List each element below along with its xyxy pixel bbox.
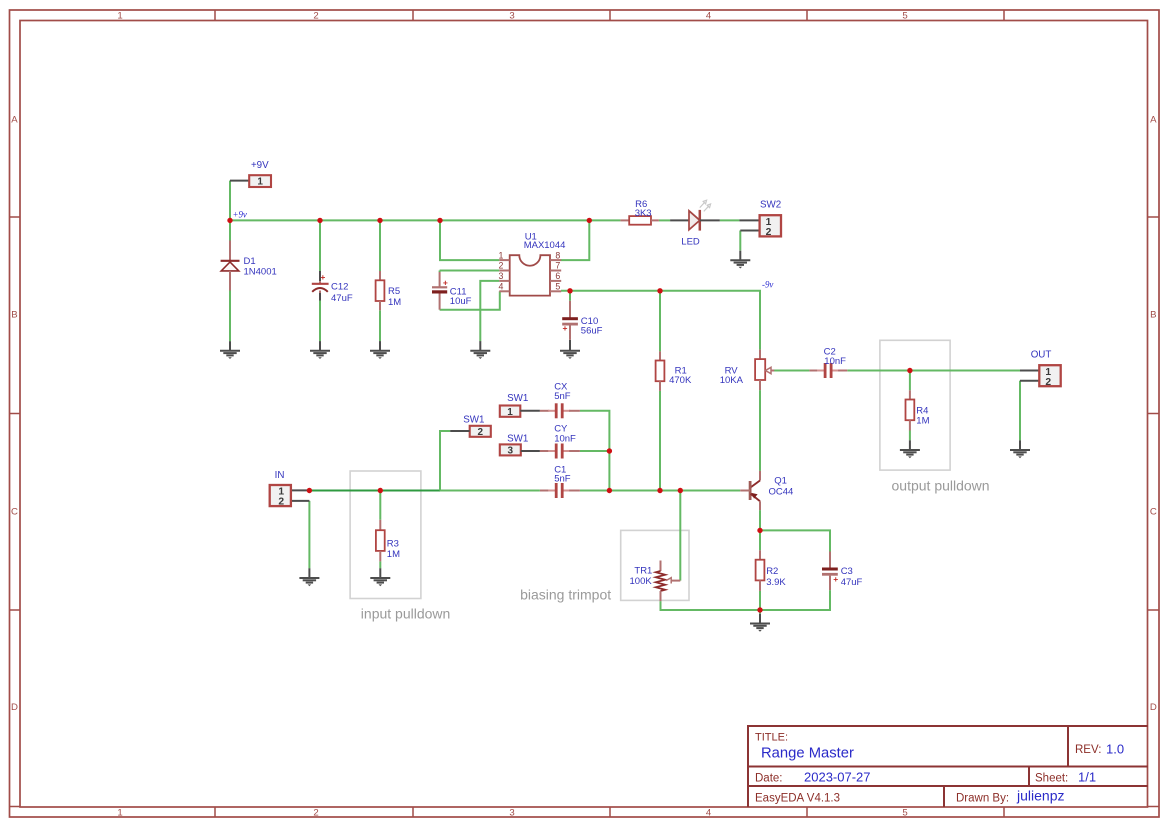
LED: [670, 200, 720, 247]
wire R2 top: [759, 530, 761, 550]
ground SW2: [730, 251, 750, 269]
svg-text:2: 2: [498, 261, 503, 271]
connector IN: [270, 470, 310, 507]
svg-text:3: 3: [509, 808, 514, 819]
wire to C3 top: [760, 530, 830, 551]
wire bottom rail TR1 to ground junction: [661, 601, 761, 610]
node junction output: [907, 368, 912, 373]
capacitor C3 47uF: [822, 552, 863, 591]
connector SW2: [739, 199, 781, 238]
svg-text:2: 2: [766, 227, 772, 238]
svg-text:REV:: REV:: [1075, 744, 1101, 756]
svg-text:56uF: 56uF: [581, 326, 603, 337]
capacitor C1 5nF: [540, 464, 580, 498]
node junction emitter: [757, 528, 762, 533]
svg-text:3: 3: [508, 446, 514, 457]
svg-text:47uF: 47uF: [331, 293, 353, 304]
wire U1 pin3 to ground: [480, 281, 499, 341]
wire -9v rail: [561, 291, 760, 350]
ground R3: [370, 568, 390, 586]
svg-text:3: 3: [498, 271, 503, 281]
svg-text:5nF: 5nF: [554, 391, 571, 402]
wire C12 bottom: [319, 301, 321, 342]
net flag SW1 pin 3: [500, 434, 540, 457]
svg-text:Sheet:: Sheet:: [1035, 773, 1068, 785]
svg-text:1N4001: 1N4001: [244, 266, 277, 277]
svg-text:4: 4: [706, 10, 712, 21]
svg-text:6: 6: [555, 271, 560, 281]
svg-text:A: A: [1150, 115, 1157, 126]
wire C11 top pin riser: [439, 271, 441, 273]
power flag +9V: [230, 160, 271, 188]
wire RV wiper to C2: [774, 370, 809, 372]
svg-text:D: D: [1150, 702, 1157, 713]
svg-text:IN: IN: [275, 470, 285, 481]
wire R4 top: [909, 371, 911, 391]
svg-text:MAX1044: MAX1044: [524, 240, 566, 251]
resistor R6 3K3: [620, 199, 659, 225]
net flag SW1 pin 1: [500, 393, 540, 418]
wire R1 top: [659, 291, 661, 352]
wire D1 top: [229, 220, 231, 240]
svg-text:1: 1: [507, 407, 513, 418]
svg-text:4: 4: [498, 282, 503, 292]
wire TR1 wiper branch: [679, 491, 681, 581]
wire C2 to OUT: [847, 370, 1020, 372]
svg-text:+: +: [320, 272, 325, 282]
svg-text:1M: 1M: [388, 297, 401, 308]
svg-text:1: 1: [117, 808, 122, 819]
svg-text:R5: R5: [388, 286, 400, 297]
svg-text:+: +: [833, 574, 838, 584]
svg-text:2: 2: [477, 427, 483, 438]
capacitor CY 10nF: [540, 424, 580, 459]
wire R5 top: [379, 220, 381, 271]
svg-text:A: A: [11, 115, 18, 126]
svg-text:R2: R2: [766, 566, 778, 577]
wire C12 top: [319, 220, 321, 271]
wire CY right to bus: [580, 450, 610, 452]
svg-text:Date:: Date:: [755, 773, 783, 785]
svg-text:5nF: 5nF: [554, 474, 571, 485]
svg-text:3K3: 3K3: [635, 208, 652, 219]
svg-text:4: 4: [706, 808, 712, 819]
svg-text:SW1: SW1: [463, 414, 484, 425]
svg-text:OUT: OUT: [1031, 350, 1052, 361]
ground D1: [220, 341, 240, 359]
svg-text:3.9K: 3.9K: [766, 577, 786, 588]
wire ground stem junction: [759, 610, 761, 614]
resistor R3 1M: [376, 520, 400, 562]
capacitor C12 47uF: [312, 271, 353, 304]
ground C10: [560, 340, 580, 359]
svg-text:1.0: 1.0: [1106, 742, 1124, 757]
wire R3 bottom: [379, 561, 381, 568]
svg-text:10nF: 10nF: [554, 433, 576, 444]
svg-text:1/1: 1/1: [1078, 770, 1096, 785]
svg-text:Q1: Q1: [774, 475, 787, 486]
svg-text:B: B: [1150, 310, 1156, 321]
wire U1 pin4 to C11 bottom: [440, 291, 500, 309]
svg-text:+: +: [563, 323, 568, 333]
ground emitter rail: [750, 614, 770, 632]
node junction bottom rail: [757, 607, 762, 612]
wire R4 bottom: [909, 431, 911, 441]
svg-text:1M: 1M: [387, 549, 400, 560]
svg-text:5: 5: [902, 10, 907, 21]
svg-text:47uF: 47uF: [841, 577, 863, 588]
svg-text:LED: LED: [681, 237, 700, 248]
capacitor CX 5nF: [540, 381, 580, 418]
svg-text:5: 5: [555, 282, 560, 292]
svg-text:Drawn By:: Drawn By:: [956, 793, 1009, 805]
capacitor C2 10nF: [809, 346, 847, 378]
svg-text:+9V: +9V: [251, 160, 269, 171]
svg-text:C3: C3: [841, 566, 853, 577]
ground U1 pin3: [470, 341, 490, 359]
potentiometer RV 10KA: [720, 350, 775, 391]
wire U1 pin1 to +9v: [440, 220, 499, 260]
wire C10 top: [569, 291, 571, 301]
wire R5 bottom: [379, 310, 381, 341]
svg-text:1M: 1M: [916, 416, 929, 427]
svg-text:10KA: 10KA: [720, 375, 744, 386]
svg-text:C12: C12: [331, 282, 348, 293]
svg-text:7: 7: [555, 261, 560, 271]
svg-text:EasyEDA V4.1.3: EasyEDA V4.1.3: [755, 793, 840, 805]
net flag SW1 pin 2: [450, 414, 491, 438]
svg-text:1: 1: [117, 10, 122, 21]
svg-text:1: 1: [498, 250, 503, 260]
svg-text:2: 2: [313, 808, 318, 819]
node junctions +9v rail: [227, 218, 232, 223]
svg-text:Range Master: Range Master: [761, 746, 854, 762]
svg-text:3: 3: [509, 10, 514, 21]
svg-text:SW1: SW1: [507, 393, 528, 404]
ground OUT pin2: [1010, 440, 1030, 458]
svg-text:10uF: 10uF: [450, 296, 472, 307]
resistor R5 1M: [376, 271, 402, 310]
wire CX right to bus: [580, 411, 610, 491]
wire +9v rail: [230, 219, 620, 221]
wire SW2 pin2 down: [739, 231, 741, 251]
svg-text:10nF: 10nF: [824, 356, 846, 367]
wire U1 pin8 to +9v: [561, 220, 589, 260]
trimpot TR1 100K: [630, 561, 681, 602]
svg-text:julienpz: julienpz: [1016, 788, 1064, 804]
wire Q1 emitter down: [759, 510, 761, 530]
capacitor C10 56uF: [562, 301, 602, 340]
node junction CY bus: [607, 448, 612, 453]
svg-text:D: D: [11, 702, 18, 713]
wire C3 bottom: [760, 590, 830, 610]
wire R1 bottom: [659, 391, 661, 491]
wire OUT pin2 to ground: [1019, 381, 1021, 441]
svg-text:+: +: [443, 277, 448, 287]
svg-text:+9v: +9v: [233, 209, 247, 219]
svg-text:input pulldown: input pulldown: [361, 606, 451, 622]
svg-text:-9v: -9v: [762, 279, 773, 289]
wire LED to SW2: [720, 219, 740, 221]
transistor Q1 OC44: [740, 471, 793, 510]
svg-text:100K: 100K: [630, 576, 653, 587]
group box: biasing trimpot: [520, 530, 689, 602]
node junctions input rail: [307, 488, 312, 493]
svg-text:2: 2: [278, 497, 284, 508]
svg-text:B: B: [11, 310, 17, 321]
resistor R2 3.9K: [756, 550, 787, 591]
op-amp U1 MAX1044: [498, 232, 565, 296]
wire C1 to Q1 base: [580, 490, 740, 492]
svg-text:SW1: SW1: [507, 434, 528, 445]
connector OUT: [1020, 350, 1061, 388]
svg-text:C: C: [11, 507, 18, 518]
svg-text:2023-07-27: 2023-07-27: [804, 770, 871, 785]
node junctions -9v rail: [567, 288, 572, 293]
ground C12: [310, 341, 330, 359]
wire R3 top: [379, 491, 381, 520]
svg-text:OC44: OC44: [769, 486, 794, 497]
resistor R4 1M: [906, 390, 930, 430]
svg-text:2: 2: [313, 10, 318, 21]
resistor R1 470K: [656, 351, 692, 391]
wire IN rail (overlapped segment): [309, 490, 440, 492]
svg-text:5: 5: [902, 808, 907, 819]
ground R4: [900, 440, 920, 458]
wire IN pin2 to ground: [308, 501, 310, 569]
svg-text:2: 2: [1045, 377, 1051, 388]
wire U1 pin2 to C11: [440, 270, 500, 272]
wire +9V flag to rail: [229, 181, 231, 221]
svg-text:TITLE:: TITLE:: [755, 732, 788, 744]
diode D1 1N4001: [221, 241, 277, 342]
svg-text:biasing trimpot: biasing trimpot: [520, 587, 611, 603]
wire RV bottom to Q1 collector: [759, 390, 761, 471]
group box: output pulldown: [880, 340, 990, 493]
ground IN pin2: [299, 568, 319, 586]
svg-text:output pulldown: output pulldown: [892, 478, 990, 494]
svg-text:470K: 470K: [669, 375, 692, 386]
wire IN rail to C1: [440, 490, 540, 492]
wire R2 bottom: [759, 591, 761, 610]
svg-text:C: C: [1150, 507, 1157, 518]
svg-text:8: 8: [555, 250, 560, 260]
wire branch to SW1 pin2: [440, 431, 450, 491]
group box: input pulldown: [350, 471, 450, 622]
wire R6 to LED: [659, 219, 670, 221]
svg-text:SW2: SW2: [760, 199, 781, 210]
svg-text:1: 1: [257, 176, 263, 187]
ground R5: [370, 341, 390, 359]
capacitor C11 10uF: [432, 272, 472, 310]
